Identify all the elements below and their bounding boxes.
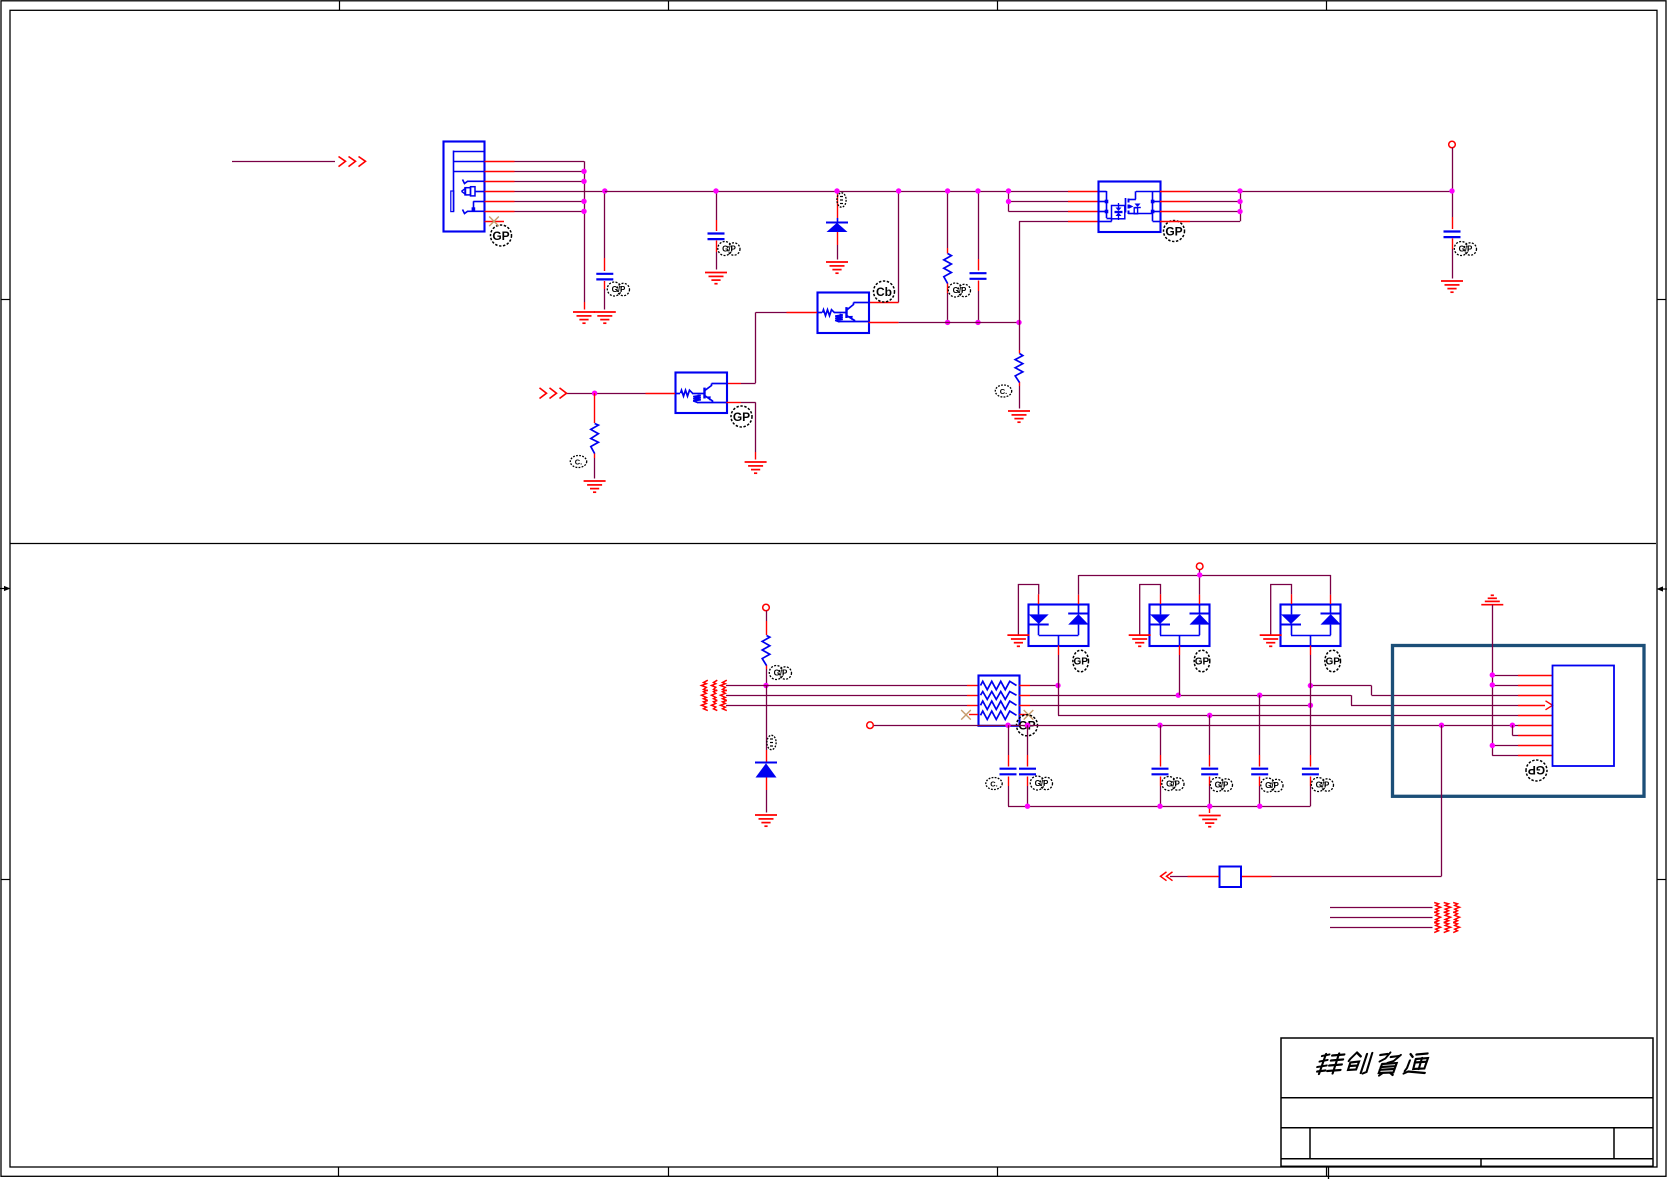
- wire spare bus 2: [1330, 917, 1433, 919]
- wire cap C8 branch: [1209, 715, 1211, 806]
- no-connect X RN1 left: [961, 710, 971, 720]
- wire net L2 row2 stepped: [1019, 695, 1518, 705]
- ground under D5: [755, 815, 777, 826]
- wire test pad out: [1170, 876, 1219, 878]
- wire J1 pin4 to main rail: [485, 191, 605, 193]
- label G/P for C8: [1210, 778, 1232, 792]
- wire cap C1 branch: [604, 191, 606, 310]
- label Cb for Q1: [874, 281, 895, 302]
- wire cap C2 branch: [716, 191, 718, 270]
- capacitor C10: [1302, 769, 1319, 775]
- label for zener D1: [837, 193, 846, 207]
- frame zone tick top 1: [339, 1, 341, 11]
- svg-text:G/P: G/P: [1316, 781, 1330, 790]
- wire audio line3 to RN1: [726, 705, 978, 707]
- wire cap C3 branch: [978, 191, 980, 322]
- power terminal top right: [1449, 141, 1456, 148]
- svg-text:GP: GP: [1325, 657, 1340, 668]
- ground under R1: [584, 481, 606, 492]
- wire main 5V rail: [605, 191, 1098, 193]
- label GP for D2: [1073, 650, 1089, 672]
- resistor R4: [762, 636, 770, 666]
- label for C5: [986, 778, 1002, 790]
- wire J1 pin2: [485, 171, 585, 173]
- wire cap ground bus: [1008, 806, 1310, 813]
- svg-text:G/P: G/P: [1166, 780, 1180, 789]
- label G/P for R4: [769, 666, 791, 680]
- wire Q1 base link: [727, 312, 818, 383]
- junction dot L5 d: [1439, 723, 1444, 728]
- bus arrows right top-left: [339, 157, 366, 167]
- wire pack power rail: [1079, 569, 1331, 594]
- inverted ground above connector: [1481, 595, 1503, 604]
- svg-text:GP: GP: [733, 410, 750, 424]
- junction dot gnd bus a: [1025, 804, 1030, 809]
- wire net L1 row1 to pack1: [1019, 685, 1058, 687]
- junction dot pack rail: [1197, 572, 1202, 577]
- junction dot L2 pack2: [1176, 693, 1181, 698]
- wire cap C9 branch: [1259, 695, 1261, 806]
- frame center arrow right: [1657, 586, 1667, 591]
- svg-text:Cb: Cb: [876, 285, 892, 299]
- junction dot C4: [1449, 188, 1454, 193]
- title block company logo text: [1315, 1053, 1430, 1076]
- wire pullup resistor R4 branch: [766, 611, 768, 686]
- bus entry arrows line1: [702, 680, 727, 691]
- junction dot C3 bottom: [975, 320, 980, 325]
- wire J1 pin3: [485, 181, 585, 183]
- label G/P for C2: [718, 242, 740, 256]
- svg-text:GP: GP: [1165, 224, 1182, 238]
- frame zone tick right 1: [1657, 299, 1666, 301]
- junction dot L4 cap: [1207, 713, 1212, 718]
- junction dot conn gnd 1: [1490, 672, 1495, 677]
- junction dot L2 cap: [1257, 693, 1262, 698]
- bus exit arrows 2: [1434, 912, 1459, 923]
- junction dot Q2 base: [592, 391, 597, 396]
- transistor Q1 digital npn: [817, 293, 869, 334]
- wire U1 outputs: [1160, 191, 1452, 222]
- wire cap C7 branch: [1160, 725, 1162, 806]
- wire spare bus 3: [1330, 927, 1433, 929]
- junction dot L5 b: [1025, 723, 1030, 728]
- resistor R3: [1015, 354, 1023, 383]
- wire detect line to test pad: [1241, 725, 1442, 876]
- wire resistor R2 branch: [947, 191, 949, 322]
- svg-text:G/P: G/P: [1035, 779, 1049, 788]
- junction dot L1 pack1: [1055, 683, 1060, 688]
- bus exit arrows 1: [1434, 903, 1459, 913]
- junction dot L5 c: [1157, 723, 1162, 728]
- wire Q2 emitter to ground: [727, 402, 756, 459]
- RN1 row4 left stub: [969, 714, 978, 716]
- svg-text:GP: GP: [1528, 763, 1545, 777]
- junction dot U1 in 1: [1006, 188, 1011, 193]
- wire conn pin5 stub: [1518, 715, 1553, 717]
- frame zone tick left 2: [1, 879, 10, 881]
- svg-text:C.: C.: [990, 779, 998, 788]
- label GP for D4: [1325, 650, 1341, 672]
- junction dot C2: [713, 188, 718, 193]
- wire Q2 base input: [567, 393, 676, 395]
- frame zone tick bottom 1: [338, 1167, 340, 1176]
- wire J1 pin6: [485, 211, 585, 213]
- no-connect X RN1 right: [1024, 710, 1034, 720]
- junction dot U1 in 2: [1006, 199, 1011, 204]
- label for R1: [570, 456, 586, 468]
- zener diode D1: [826, 218, 848, 232]
- bus entry arrows line2: [702, 690, 727, 701]
- wire spare bus 1: [1330, 907, 1433, 909]
- power terminal packs: [1196, 563, 1203, 570]
- junction dot gnd bus d: [1257, 804, 1262, 809]
- svg-text:G/P: G/P: [1215, 781, 1229, 790]
- ground under C1: [594, 312, 616, 323]
- ground under D1: [826, 262, 848, 273]
- wire output rail to cap C4: [1452, 148, 1454, 279]
- wire cap C5 branch: [1008, 725, 1010, 806]
- label G/P for C6: [1030, 776, 1052, 790]
- frame center arrow left: [0, 586, 11, 591]
- resistor network RN1: [979, 676, 1020, 726]
- label for R3: [995, 385, 1011, 397]
- svg-text:G/P: G/P: [722, 245, 736, 254]
- ground under C2: [705, 273, 727, 284]
- wire audio line2 to RN1: [726, 695, 978, 697]
- ground under C4: [1441, 281, 1463, 292]
- junction dot zener: [834, 188, 839, 193]
- junction dot L5 a: [1005, 723, 1010, 728]
- label for D5: [767, 735, 776, 749]
- label G/P for C10: [1311, 778, 1333, 792]
- input arrow conn pin4: [1546, 701, 1553, 710]
- junction dot emitter net: [1016, 320, 1021, 325]
- bus exit arrows 3: [1434, 923, 1459, 933]
- fold mark bottom: [1328, 1167, 1330, 1179]
- wire conn pin4 stub: [1518, 705, 1545, 707]
- off page arrow left: [1161, 872, 1173, 881]
- svg-text:G/P: G/P: [612, 285, 626, 294]
- frame zone tick left 1: [1, 299, 10, 301]
- test pad TP1: [1220, 867, 1242, 888]
- label GP for RN1: [1017, 715, 1038, 736]
- svg-text:C.: C.: [1000, 387, 1008, 396]
- connector J2 header: [1553, 666, 1615, 767]
- capacitor C2: [708, 234, 725, 240]
- svg-text:G/P: G/P: [774, 669, 788, 678]
- svg-text:G/P: G/P: [953, 286, 967, 295]
- wire Q1 collector to rail: [869, 191, 899, 303]
- ESD diode pack D4: [1260, 585, 1341, 656]
- label G/P for R2: [948, 283, 970, 297]
- ESD diode pack D2: [1007, 585, 1088, 656]
- label G/P for C4: [1454, 242, 1476, 256]
- junction dot conn gnd 3: [1490, 743, 1495, 748]
- wire zener branch: [837, 191, 839, 260]
- junction dot C3 top: [975, 188, 980, 193]
- wire connector ground net: [1492, 605, 1552, 756]
- junction dot R2 bottom: [945, 320, 950, 325]
- junction dot U1 out 2: [1237, 199, 1242, 204]
- label GP for D3: [1194, 650, 1210, 672]
- capacitor C1: [596, 274, 613, 280]
- frame zone tick top 2: [668, 1, 670, 11]
- frame zone tick top 3: [997, 1, 999, 11]
- wire gate pulldown branch: [1019, 221, 1021, 408]
- transistor Q2 digital npn: [675, 373, 727, 414]
- power terminal lower left: [763, 604, 770, 611]
- junction dot gnd bus b: [1157, 804, 1162, 809]
- wire net L5 detect: [873, 725, 1518, 727]
- junction dot Q1 collector rail: [896, 188, 901, 193]
- resistor R2: [944, 254, 952, 284]
- RN1 row4 right stub: [1019, 714, 1026, 716]
- junction dot R2 top: [945, 188, 950, 193]
- junction dot R4: [763, 683, 768, 688]
- junction dot U1 out 3: [1237, 209, 1242, 214]
- TVS diode D5: [755, 763, 777, 778]
- no-connect X on J1 pin: [489, 217, 499, 227]
- label G/P for C7: [1162, 777, 1184, 791]
- svg-text:GP: GP: [1073, 657, 1088, 668]
- junction dot L3 pack3: [1308, 703, 1313, 708]
- frame zone tick top 4: [1326, 1, 1328, 11]
- wire resistor R1 branch: [594, 393, 596, 478]
- capacitor C4: [1444, 232, 1461, 238]
- wire audio line1 to RN1: [726, 685, 978, 687]
- bus entry arrows line3: [702, 701, 727, 711]
- svg-text:G/P: G/P: [1459, 245, 1473, 254]
- junction dot U1 out 1: [1237, 188, 1242, 193]
- wire pack3 bottom branch: [1310, 655, 1312, 806]
- label GP for J1: [491, 225, 512, 246]
- wire net W1 pack3 stepped: [1310, 686, 1518, 696]
- svg-text:GP: GP: [492, 229, 509, 243]
- junction dot conn gnd 2: [1490, 682, 1495, 687]
- ground cap bus: [1199, 816, 1221, 827]
- wire TVS diode branch: [766, 686, 768, 813]
- highlight box connector area: [1393, 646, 1645, 797]
- resistor R1: [591, 424, 599, 454]
- label GP for J2 rotated: [1526, 760, 1547, 781]
- junction dot gnd bus c: [1207, 804, 1212, 809]
- svg-text:GP: GP: [1195, 657, 1210, 668]
- power terminal detect: [867, 722, 874, 729]
- junction dots ground tie: [581, 169, 586, 214]
- bus arrows input Q2: [540, 388, 567, 399]
- label G/P for C9: [1261, 778, 1283, 792]
- frame zone tick right 2: [1657, 879, 1666, 881]
- junction dot L5 e: [1510, 723, 1515, 728]
- ground under tie: [573, 312, 595, 323]
- ground Q2 emitter: [745, 462, 767, 473]
- wire J1 pin5: [485, 201, 585, 203]
- junction dot C1: [602, 188, 607, 193]
- wire net L3 row3: [1019, 705, 1310, 707]
- wire pack1 bottom to L1: [1058, 655, 1060, 686]
- wire conn pin6 pin7 link: [1512, 725, 1552, 735]
- frame zone tick bottom 3: [997, 1167, 999, 1176]
- wire Q1 emitter net: [869, 322, 1020, 324]
- wire ground tie vertical: [584, 161, 586, 309]
- ground under R3: [1008, 411, 1030, 422]
- label GP for U1: [1164, 221, 1185, 242]
- frame zone tick bottom 2: [668, 1167, 670, 1176]
- mosfet U1 load switch: [1098, 182, 1161, 233]
- wire cap C6 branch: [1027, 725, 1029, 806]
- ESD diode pack D3: [1129, 585, 1210, 656]
- connector J1 audio jack: [444, 142, 485, 232]
- section divider line: [10, 543, 1656, 545]
- svg-text:G/P: G/P: [1265, 781, 1279, 790]
- svg-text:C.: C.: [575, 457, 583, 466]
- frame zone tick bottom 4: [1326, 1167, 1328, 1176]
- label GP for Q2: [731, 406, 752, 427]
- wire J1 pin1: [485, 161, 585, 163]
- J1 NC pin stub: [485, 221, 505, 223]
- net stub arrow top-left: [232, 161, 335, 163]
- label G/P for C1: [607, 282, 629, 296]
- wire U1 input lines: [1009, 191, 1099, 222]
- wire net L4 pack1 branch: [1058, 686, 1518, 716]
- wire pack2 bottom to L2: [1179, 655, 1181, 695]
- junction dot W1 pack3: [1308, 683, 1313, 688]
- capacitor C3: [970, 273, 987, 279]
- title block outline: [1281, 1038, 1653, 1166]
- wire conn pin3 stub: [1518, 695, 1553, 697]
